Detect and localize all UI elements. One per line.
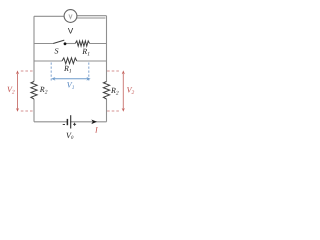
svg-text:S: S <box>55 46 59 55</box>
svg-text:V: V <box>68 26 74 35</box>
svg-text:I: I <box>94 126 98 135</box>
